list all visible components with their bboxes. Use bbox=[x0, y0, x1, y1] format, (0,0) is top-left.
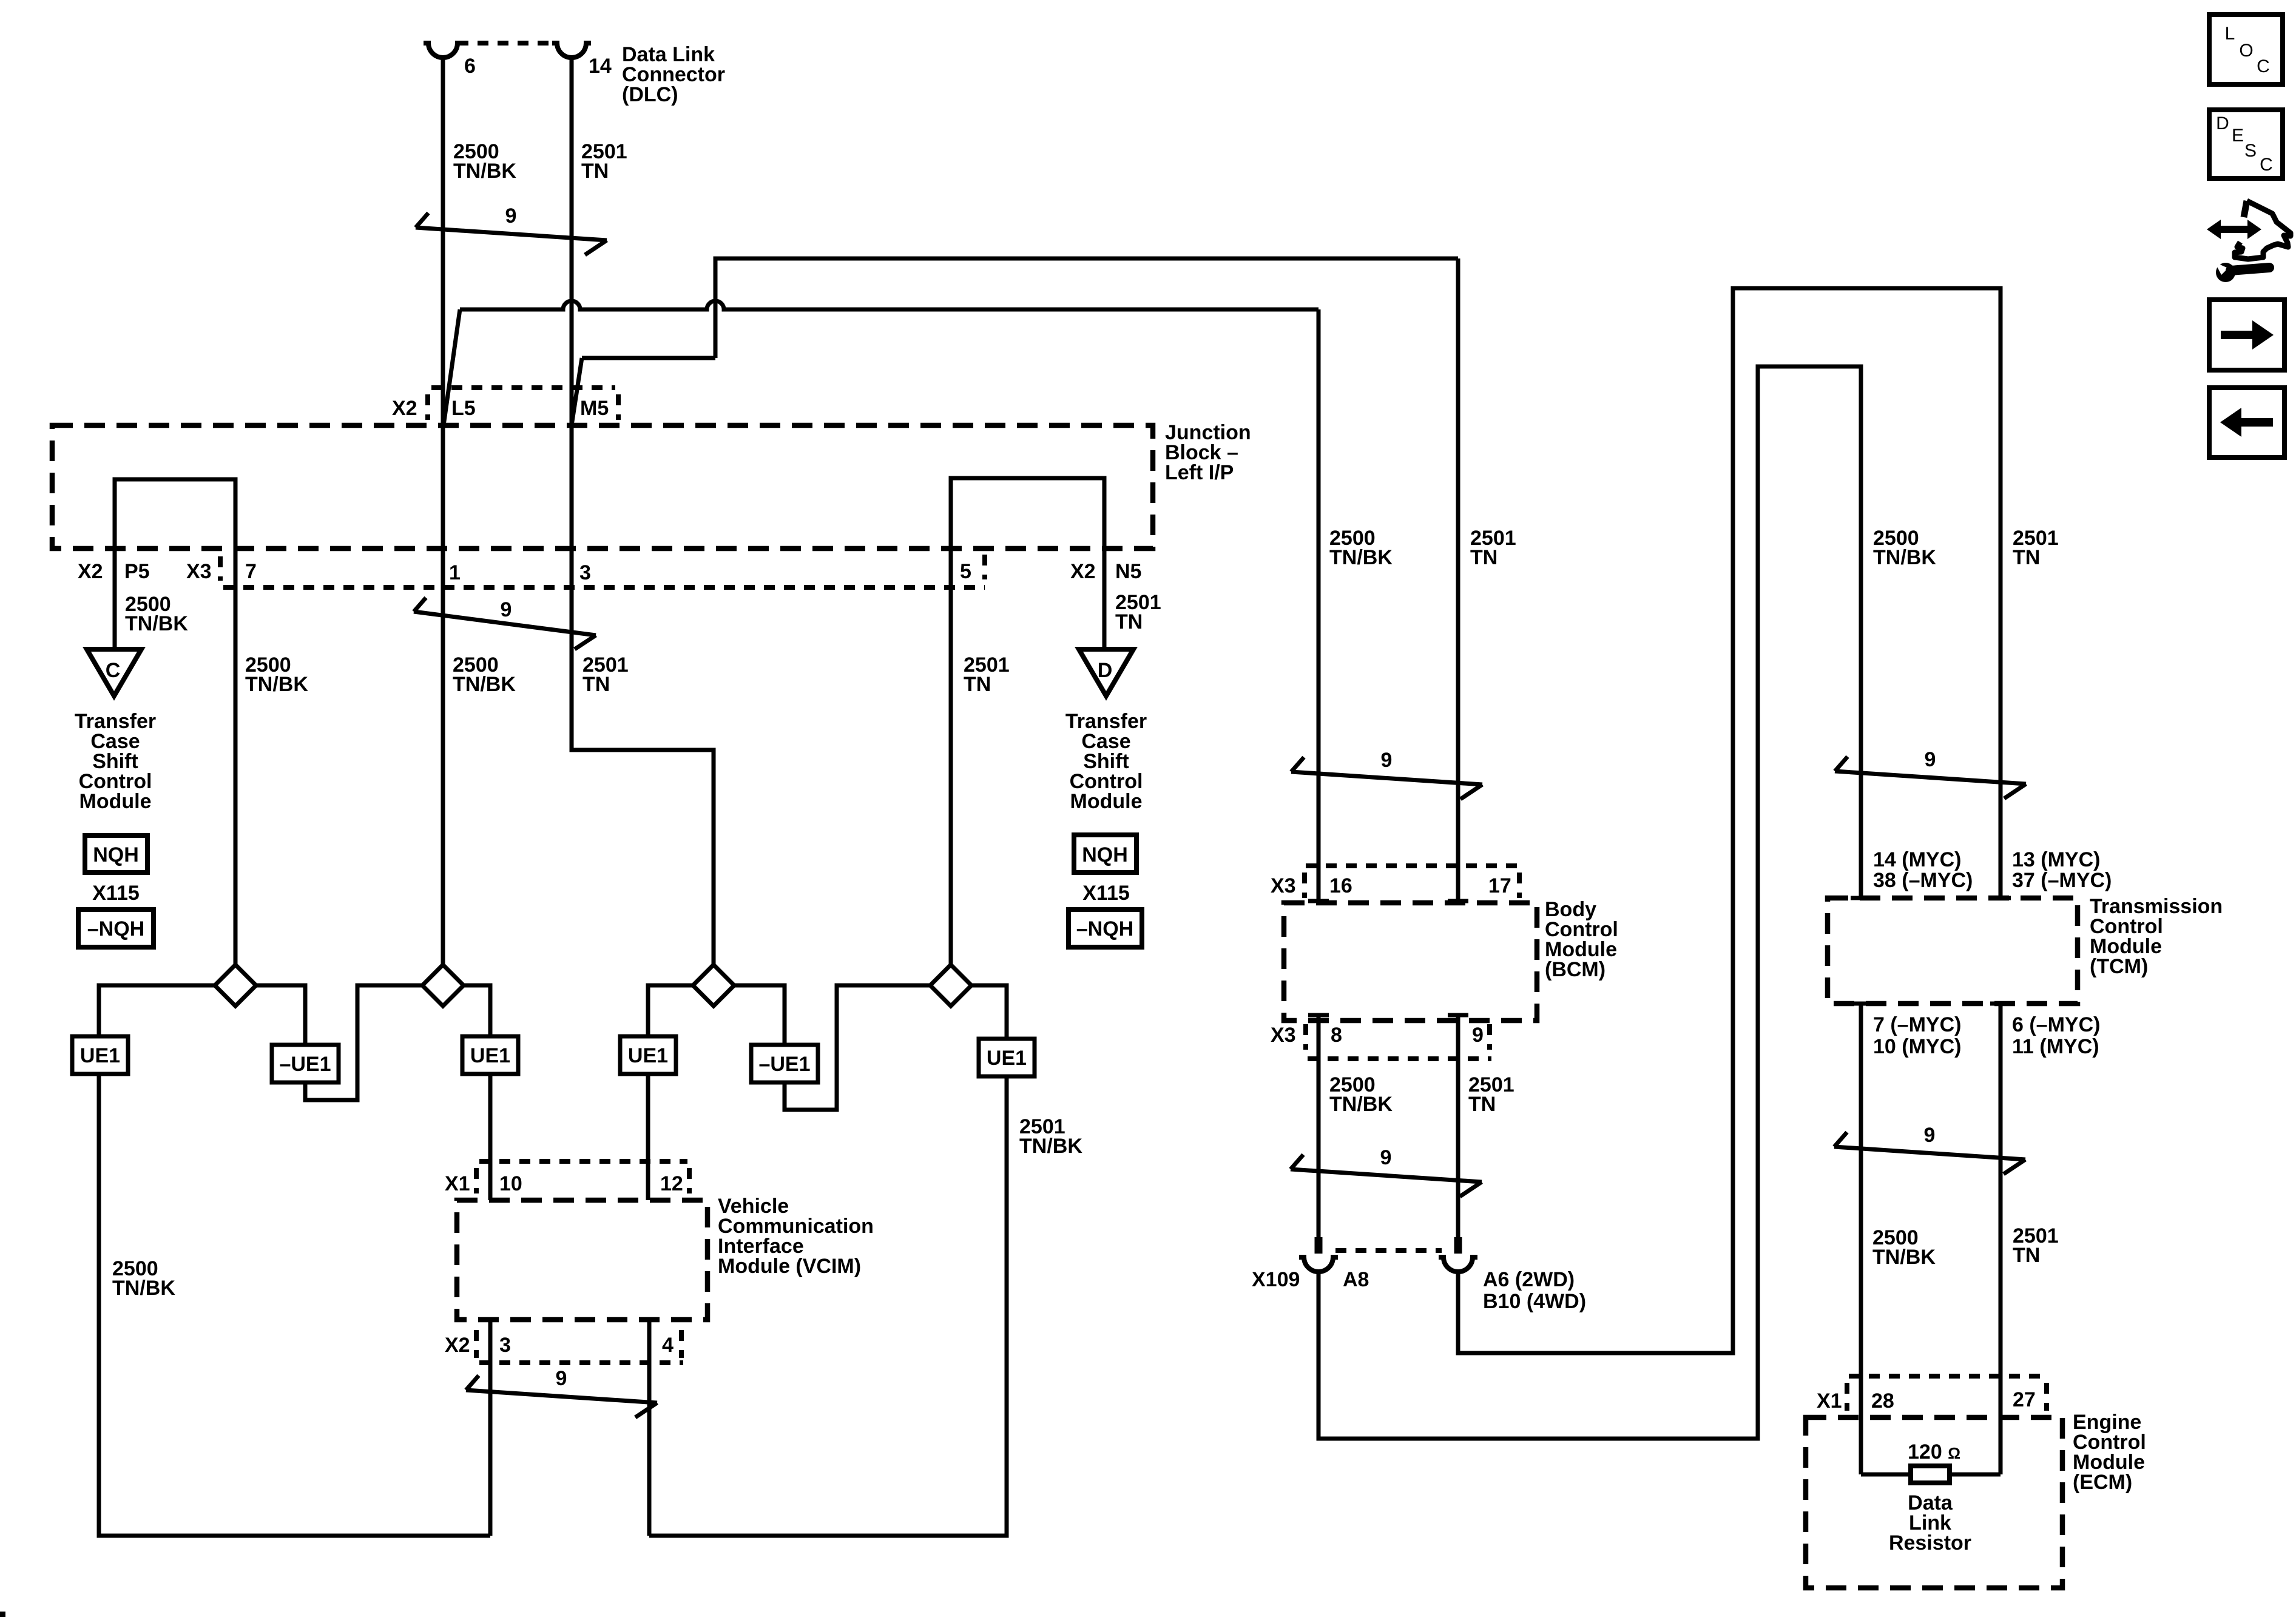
module ECM dashed box bbox=[1806, 1417, 2062, 1588]
junction block Left I/P dashed box bbox=[52, 425, 1153, 549]
svg-text:E: E bbox=[2232, 126, 2244, 146]
pin 16 wire end tick bbox=[1308, 899, 1329, 903]
module VCIM dashed box bbox=[457, 1200, 707, 1320]
harness box -UE1 #2 bbox=[751, 1045, 818, 1082]
harness box -UE1 #1 bbox=[272, 1045, 339, 1082]
wire X109 A8 loop to TCM 2500 feed bbox=[1319, 366, 1861, 1439]
wire resistor loop right bbox=[1950, 1473, 2001, 1477]
wire 2501 TN from DLC pin 14 bbox=[572, 58, 714, 966]
svg-text:3: 3 bbox=[579, 561, 591, 584]
wire -UE1 jog to splice S2 bbox=[305, 985, 422, 1100]
svg-text:16: 16 bbox=[1329, 874, 1352, 897]
svg-text:X1: X1 bbox=[445, 1172, 470, 1195]
resistor 120 ohm Data Link Resistor bbox=[1911, 1466, 1950, 1483]
svg-text:10: 10 bbox=[499, 1172, 522, 1195]
svg-text:7: 7 bbox=[245, 560, 257, 583]
module TCM dashed box bbox=[1828, 898, 2078, 1004]
wire junction pass-through pin1 bbox=[441, 425, 445, 549]
wire junction pass-through pin3 bbox=[570, 425, 574, 549]
svg-text:4: 4 bbox=[662, 1334, 674, 1357]
pin 14 terminal cup bbox=[552, 43, 591, 58]
harness box UE1 #4 bbox=[979, 1039, 1035, 1076]
svg-text:UE1: UE1 bbox=[80, 1044, 120, 1067]
svg-text:P5: P5 bbox=[124, 560, 150, 583]
connector X2 VCIM dashed row bbox=[476, 1330, 683, 1363]
svg-text:C: C bbox=[2260, 155, 2273, 175]
svg-text:7 (–MYC)10 (MYC): 7 (–MYC)10 (MYC) bbox=[1873, 1013, 1961, 1058]
icon schematic outline stub bbox=[2244, 201, 2247, 217]
wire resistor loop left bbox=[1861, 1473, 1911, 1477]
svg-text:S: S bbox=[2244, 141, 2257, 161]
module BCM dashed box bbox=[1284, 903, 1537, 1021]
svg-text:D: D bbox=[2216, 113, 2229, 133]
wire TCM pin7 down to ECM pin28 bbox=[1859, 1004, 1863, 1474]
splice diamond S1 bbox=[215, 965, 256, 1006]
svg-text:X115: X115 bbox=[1082, 882, 1130, 905]
svg-text:120 Ω: 120 Ω bbox=[1908, 1440, 1960, 1463]
wire UE1 to VCIM pin 10 bbox=[488, 1074, 493, 1200]
wire BCM pin16 vertical drop bbox=[1317, 309, 1321, 901]
wire P5 to connector C bbox=[113, 549, 117, 649]
svg-text:X109: X109 bbox=[1252, 1268, 1300, 1291]
splice diamond S2 bbox=[422, 965, 464, 1006]
wire internal link pin5 to N5 bbox=[951, 478, 1104, 549]
TCM pin 6 wire end tick bbox=[1990, 1002, 2011, 1006]
svg-text:M5: M5 bbox=[580, 397, 609, 420]
svg-text:A6 (2WD): A6 (2WD) bbox=[1483, 1268, 1575, 1291]
pin 17 wire end tick bbox=[1448, 899, 1468, 903]
svg-text:–NQH: –NQH bbox=[87, 917, 144, 940]
TCM pin 7 wire end tick bbox=[1851, 1002, 1871, 1006]
X109 pin A8 terminal cup bbox=[1299, 1257, 1338, 1272]
wire TCM pin6 down to ECM pin27 bbox=[1999, 1004, 2003, 1474]
svg-text:UE1: UE1 bbox=[987, 1047, 1027, 1070]
off-page connector C triangle bbox=[87, 649, 141, 696]
off-page connector D triangle bbox=[1079, 649, 1133, 696]
svg-text:1: 1 bbox=[449, 561, 461, 584]
wire 2500 TN/BK from DLC pin 6 bbox=[441, 58, 445, 966]
svg-text:O: O bbox=[2239, 41, 2253, 61]
box -NQH (right) bbox=[1069, 910, 1142, 947]
svg-text:X2: X2 bbox=[1070, 560, 1096, 583]
svg-text:9: 9 bbox=[1472, 1024, 1484, 1047]
icon box back arrow bbox=[2209, 388, 2284, 457]
svg-text:NQH: NQH bbox=[93, 843, 139, 866]
wire UE1 #4 long run to VCIM pin 4 (bottom right U) bbox=[649, 1076, 1007, 1536]
svg-text:A8: A8 bbox=[1343, 1268, 1369, 1291]
harness crossing 9 (BCM to X109 wires) bbox=[1291, 1146, 1482, 1197]
svg-text:X2: X2 bbox=[445, 1334, 470, 1357]
svg-text:6: 6 bbox=[464, 55, 476, 78]
connector X2 L5/M5 dashed box bbox=[428, 388, 618, 420]
svg-text:NQH: NQH bbox=[1082, 843, 1128, 866]
svg-text:X3: X3 bbox=[186, 560, 212, 583]
wire M5 riser horizontal bbox=[582, 356, 715, 360]
connector DLC dashed link pin6-pin14 bbox=[458, 41, 558, 46]
wire VCIM pin 4 down bbox=[647, 1320, 652, 1536]
harness crossing 9 (TCM feed wires) bbox=[1835, 748, 2026, 798]
svg-text:–NQH: –NQH bbox=[1076, 917, 1133, 940]
svg-text:C: C bbox=[2257, 56, 2270, 76]
wire X109 A6 loop to TCM 2501 feed bbox=[1458, 288, 2001, 1353]
svg-text:X1: X1 bbox=[1817, 1389, 1842, 1413]
harness crossing 9 (BCM feed wires) bbox=[1291, 749, 1482, 799]
wire splice S3 right arm to -UE1 bbox=[734, 985, 785, 1045]
wire BCM pin 9 down to X109 A6 bbox=[1456, 1015, 1460, 1251]
box NQH (left) bbox=[85, 836, 147, 873]
pin 9 wire end tick bbox=[1448, 1013, 1468, 1018]
wire 2501 TN pin5 down to splice S4 bbox=[949, 549, 953, 966]
svg-text:3: 3 bbox=[499, 1334, 511, 1357]
svg-text:8: 8 bbox=[1331, 1024, 1342, 1047]
svg-text:6 (–MYC)11 (MYC): 6 (–MYC)11 (MYC) bbox=[2012, 1013, 2100, 1058]
svg-text:X3: X3 bbox=[1271, 1024, 1296, 1047]
connector X3 dashed row bbox=[220, 555, 985, 587]
harness crossing 9 (VCIM X2 wires) bbox=[466, 1367, 657, 1417]
svg-text:X2: X2 bbox=[78, 560, 103, 583]
svg-text:L: L bbox=[2225, 24, 2235, 44]
wire UE1 to VCIM pin 12 bbox=[646, 1074, 650, 1200]
connector X109 dashed link bbox=[1335, 1248, 1442, 1253]
svg-text:17: 17 bbox=[1488, 874, 1511, 897]
harness crossing 9 (junction pins 1,3) bbox=[414, 598, 596, 649]
TCM pin 13 wire end tick bbox=[1990, 896, 2011, 900]
icon box forward arrow bbox=[2209, 300, 2284, 370]
harness crossing 9 (TCM to ECM wires) bbox=[1834, 1124, 2025, 1174]
wire splice S4 right arm to UE1 bbox=[971, 985, 1007, 1039]
icon double arrow bbox=[2207, 220, 2261, 239]
wire splice S3 left arm to UE1 bbox=[648, 985, 693, 1036]
svg-text:27: 27 bbox=[2013, 1388, 2036, 1411]
connector X1 ECM dashed row bbox=[1847, 1376, 2047, 1411]
wire VCIM pin 3 down bbox=[488, 1320, 493, 1536]
svg-text:X2: X2 bbox=[392, 397, 417, 420]
harness box UE1 #3 bbox=[620, 1036, 676, 1074]
splice diamond S3 bbox=[693, 965, 734, 1006]
svg-text:D: D bbox=[1098, 659, 1113, 682]
connector X1 VCIM dashed row bbox=[476, 1161, 689, 1193]
connector X3 BCM top dashed row bbox=[1305, 866, 1519, 898]
svg-text:N5: N5 bbox=[1115, 560, 1141, 583]
connector X3 BCM bottom dashed row bbox=[1306, 1024, 1491, 1059]
wire 2501 TN bus M5 to BCM pin17 bbox=[715, 258, 1458, 358]
svg-text:12: 12 bbox=[660, 1172, 683, 1195]
svg-text:–UE1: –UE1 bbox=[758, 1053, 810, 1076]
box NQH (right) bbox=[1074, 835, 1136, 873]
harness box UE1 #2 bbox=[462, 1036, 518, 1074]
icon wrench bbox=[2215, 262, 2269, 282]
svg-text:X115: X115 bbox=[92, 882, 140, 905]
wire slant into junction pin L5 bbox=[444, 309, 460, 425]
svg-text:B10 (4WD): B10 (4WD) bbox=[1483, 1290, 1586, 1313]
page corner mark bbox=[0, 1612, 5, 1617]
svg-text:5: 5 bbox=[960, 560, 971, 583]
wire internal link pin7 to P5 bbox=[115, 479, 235, 549]
icon box LOC bbox=[2209, 15, 2283, 84]
harness crossing 9 (DLC wires) bbox=[416, 204, 607, 255]
svg-text:9: 9 bbox=[501, 598, 512, 621]
wire splice S2 right arm to UE1 bbox=[464, 985, 490, 1036]
svg-text:14: 14 bbox=[589, 55, 612, 78]
svg-text:UE1: UE1 bbox=[628, 1044, 668, 1067]
wire splice S1 left arm to UE1 bbox=[99, 985, 215, 1036]
wire splice S1 right arm to -UE1 bbox=[256, 985, 305, 1045]
icon box DESC bbox=[2209, 110, 2283, 178]
pin 6 terminal cup bbox=[424, 43, 462, 58]
wire 2500 TN/BK pin7 down to splice S1 bbox=[234, 549, 238, 966]
pin 8 wire end tick bbox=[1308, 1013, 1329, 1018]
svg-text:L5: L5 bbox=[451, 397, 476, 420]
TCM pin 14 wire end tick bbox=[1851, 896, 1871, 900]
wire BCM pin17 vertical drop bbox=[1456, 258, 1460, 901]
wire 2500 TN/BK bus L5 to BCM pin16 with hops bbox=[460, 301, 1319, 309]
icon schematic outline bbox=[2235, 201, 2291, 259]
splice diamond S4 bbox=[930, 965, 971, 1006]
svg-text:–UE1: –UE1 bbox=[279, 1053, 331, 1076]
harness box UE1 #1 bbox=[72, 1036, 128, 1074]
svg-text:UE1: UE1 bbox=[470, 1044, 510, 1067]
svg-text:13 (MYC)37 (–MYC): 13 (MYC)37 (–MYC) bbox=[2012, 848, 2112, 892]
svg-text:C: C bbox=[106, 659, 121, 682]
box -NQH (left) bbox=[78, 910, 154, 947]
X109 pin A6 terminal cup bbox=[1439, 1257, 1477, 1272]
svg-text:28: 28 bbox=[1871, 1389, 1894, 1413]
svg-text:14 (MYC)38 (–MYC): 14 (MYC)38 (–MYC) bbox=[1873, 848, 1973, 892]
svg-text:X3: X3 bbox=[1271, 874, 1296, 897]
X109 pin A6 wire stub bbox=[1454, 1237, 1462, 1254]
wire UE1 long run to VCIM pin 3 (bottom left U) bbox=[99, 1074, 490, 1536]
wire BCM pin 8 down to X109 A8 bbox=[1317, 1015, 1321, 1251]
wire slant into junction pin M5 bbox=[572, 358, 582, 425]
wire -UE1 jog to splice S4 bbox=[785, 985, 930, 1110]
wire N5 to connector D bbox=[1102, 549, 1107, 649]
X109 pin A8 wire stub bbox=[1315, 1237, 1323, 1254]
